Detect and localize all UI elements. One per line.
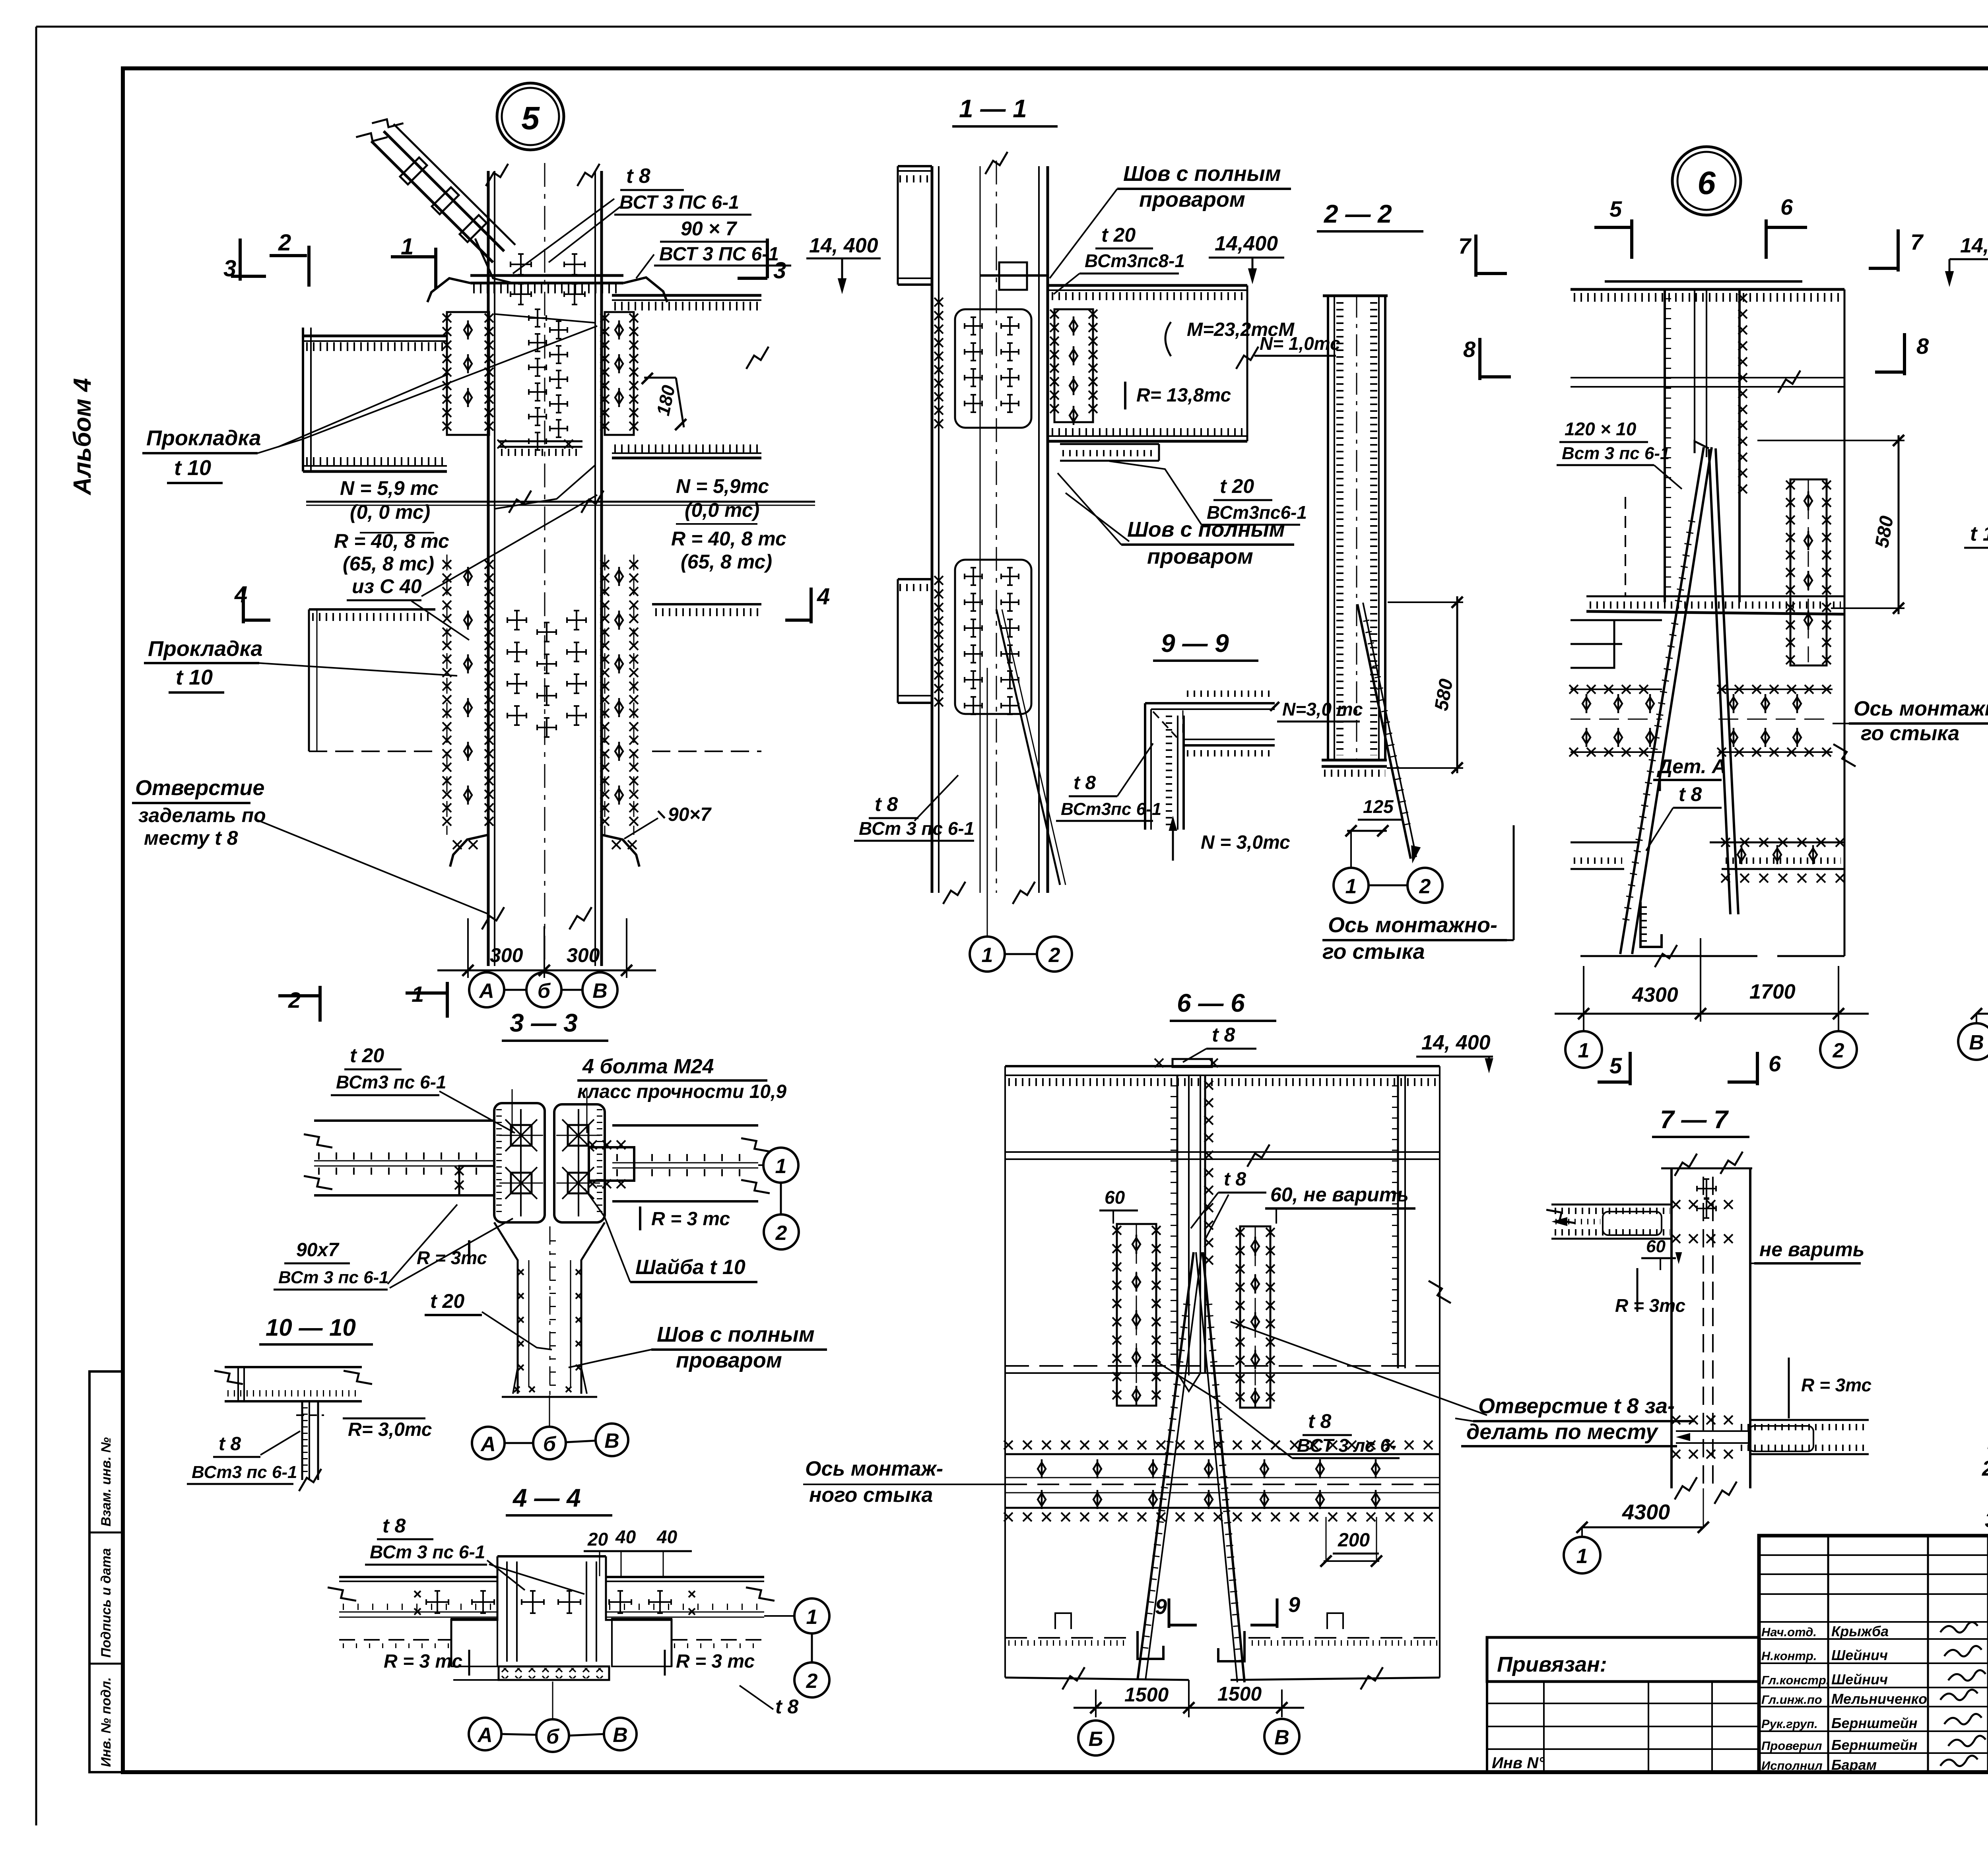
node6 middle beam xyxy=(1586,595,1844,597)
node5 lower right beam xyxy=(652,603,761,605)
node5 column xyxy=(487,171,490,966)
svg-text:4: 4 xyxy=(234,582,247,607)
svg-text:R = 3тс: R = 3тс xyxy=(1801,1375,1872,1395)
5-5 dims 3750 750 1500 xyxy=(1976,1013,1988,1015)
svg-text:В: В xyxy=(1969,1031,1984,1054)
7-7 right beam xyxy=(1750,1419,1869,1421)
svg-text:300: 300 xyxy=(567,944,600,966)
left margin stamp boxes xyxy=(89,1371,123,1772)
svg-text:R = 40, 8 тс: R = 40, 8 тс xyxy=(671,528,786,550)
1-1 axis circles xyxy=(970,937,1005,972)
6-6 lower strip xyxy=(1005,1453,1440,1455)
1-1 beam x plate xyxy=(1054,309,1093,422)
svg-text:(0, 0 тс): (0, 0 тс) xyxy=(350,501,430,523)
3-3 bolts xyxy=(511,1125,532,1146)
outer sheet border xyxy=(35,27,37,1825)
svg-text:Нач.отд.: Нач.отд. xyxy=(1761,1625,1817,1639)
4-4 circles 1 2 xyxy=(794,1598,829,1633)
svg-text:R = 3 тс: R = 3 тс xyxy=(651,1208,730,1230)
svg-text:2: 2 xyxy=(1048,944,1060,967)
svg-text:125: 125 xyxy=(1363,796,1394,817)
svg-text:Крыжба: Крыжба xyxy=(1831,1623,1889,1639)
svg-text:А: А xyxy=(480,1433,496,1456)
svg-text:1500: 1500 xyxy=(1217,1683,1262,1705)
6-6 mid dashed beam lines xyxy=(1005,1365,1440,1367)
node6 dims 4300 1700 xyxy=(1583,966,1584,1022)
svg-text:Ось монтажно-: Ось монтажно- xyxy=(1328,913,1497,937)
svg-text:N=3,0 тс: N=3,0 тс xyxy=(1282,699,1363,720)
svg-text:N = 5,9тс: N = 5,9тс xyxy=(676,475,769,497)
dim 180 xyxy=(644,377,676,379)
svg-text:Проверил: Проверил xyxy=(1761,1739,1822,1753)
svg-text:1: 1 xyxy=(775,1155,787,1178)
svg-text:В: В xyxy=(613,1724,628,1747)
6-6 right stiffener xyxy=(1397,1075,1399,1368)
9-9 corner detail xyxy=(1145,702,1275,704)
svg-text:ВСт3пс8-1: ВСт3пс8-1 xyxy=(1085,250,1185,271)
svg-text:Исполнил: Исполнил xyxy=(1761,1759,1823,1773)
svg-text:го стыка: го стыка xyxy=(1861,722,1959,745)
6-6 bottom edge xyxy=(1005,1678,1189,1680)
svg-text:5: 5 xyxy=(521,100,540,136)
node 6 bubble xyxy=(1672,147,1741,215)
svg-text:4 — 4: 4 — 4 xyxy=(512,1484,581,1512)
svg-text:3.Работать с листом 18,: 3.Работать с листом 18, xyxy=(1985,1508,1988,1532)
10-10 vertical stub xyxy=(301,1401,303,1480)
6-6 top beam xyxy=(1005,1065,1440,1067)
1-1 diagonal inside column xyxy=(996,609,1060,885)
svg-text:Шайба t 10: Шайба t 10 xyxy=(635,1256,745,1279)
svg-text:ВСт3пс 6-1: ВСт3пс 6-1 xyxy=(1061,799,1161,819)
svg-text:Отверстие t 8 за-: Отверстие t 8 за- xyxy=(1478,1394,1675,1418)
svg-text:2 — 2: 2 — 2 xyxy=(1324,200,1392,228)
svg-text:t 8: t 8 xyxy=(1224,1169,1246,1190)
svg-text:Прокладка: Прокладка xyxy=(148,637,263,661)
svg-text:t 10: t 10 xyxy=(174,456,211,480)
svg-text:90 × 7: 90 × 7 xyxy=(681,217,738,240)
3-3 column section (two channels) xyxy=(494,1103,545,1222)
svg-text:2: 2 xyxy=(288,987,301,1012)
svg-text:N = 5,9 тс: N = 5,9 тс xyxy=(340,477,439,499)
svg-text:Ось монтаж-: Ось монтаж- xyxy=(805,1457,943,1480)
node6 top beam xyxy=(1571,288,1844,291)
svg-text:t 10: t 10 xyxy=(1970,522,1988,545)
5-5 axis circles xyxy=(1958,1023,1988,1060)
svg-text:ВСт 3 пс 6-1: ВСт 3 пс 6-1 xyxy=(859,818,974,839)
node6 bottom lines xyxy=(1580,955,1757,957)
1-1 bottom left leader xyxy=(914,775,958,821)
7-7 R=3tc left xyxy=(1637,1268,1639,1312)
svg-text:1: 1 xyxy=(806,1606,818,1629)
node6 axis circles 1 2 xyxy=(1583,1022,1584,1030)
7-7 left beam xyxy=(1551,1204,1672,1206)
1-1 inner slotted plates xyxy=(955,309,1031,428)
1-1 seat plate below beam xyxy=(1060,443,1159,445)
svg-text:6 — 6: 6 — 6 xyxy=(1177,989,1245,1017)
svg-text:10 — 10: 10 — 10 xyxy=(266,1314,356,1341)
svg-text:Бернштейн: Бернштейн xyxy=(1831,1715,1918,1731)
svg-text:заделать по: заделать по xyxy=(138,804,266,826)
svg-text:б: б xyxy=(543,1433,557,1456)
svg-text:Гл.инж.по: Гл.инж.по xyxy=(1761,1693,1822,1707)
svg-text:2: 2 xyxy=(1419,875,1431,898)
svg-text:1700: 1700 xyxy=(1749,980,1796,1003)
svg-text:14, 400: 14, 400 xyxy=(1960,234,1988,257)
svg-text:месту t 8: месту t 8 xyxy=(144,827,238,849)
6-6 montage plates xyxy=(1117,1224,1156,1406)
svg-text:60, не варить: 60, не варить xyxy=(1270,1183,1409,1206)
node5 bottom bent angles xyxy=(450,835,488,867)
svg-text:1 — 1: 1 — 1 xyxy=(959,94,1027,123)
1-1 column xyxy=(931,166,934,893)
svg-text:ВСт 3 пс 6-1: ВСт 3 пс 6-1 xyxy=(278,1268,389,1287)
svg-text:2: 2 xyxy=(278,230,291,256)
svg-text:2: 2 xyxy=(1833,1039,1844,1062)
svg-text:Привязан:: Привязан: xyxy=(1497,1653,1607,1676)
svg-text:R = 3тс: R = 3тс xyxy=(1615,1295,1685,1316)
7-7 axis circle 1 xyxy=(1564,1537,1600,1573)
svg-text:t 8: t 8 xyxy=(1212,1024,1235,1046)
svg-text:60: 60 xyxy=(1646,1237,1666,1256)
node6 dim 580 xyxy=(1757,440,1905,441)
10-10 beam xyxy=(225,1366,362,1368)
svg-text:Б: Б xyxy=(1089,1728,1103,1751)
node6 horizontal break lines xyxy=(1571,377,1844,378)
svg-text:Вст 3 пс 6-1: Вст 3 пс 6-1 xyxy=(1562,444,1670,463)
4-4 central H section xyxy=(497,1555,606,1558)
1-1 column bottom breaks xyxy=(943,882,965,904)
svg-text:3 — 3: 3 — 3 xyxy=(510,1009,578,1037)
svg-text:Бернштейн: Бернштейн xyxy=(1831,1737,1918,1753)
node5 joint plate left xyxy=(447,312,489,435)
node5 axis circles xyxy=(469,972,504,1007)
svg-text:го стыка: го стыка xyxy=(1322,940,1425,964)
svg-text:8: 8 xyxy=(1916,334,1929,359)
node6 left montage strip xyxy=(1571,689,1662,690)
svg-text:14, 400: 14, 400 xyxy=(809,234,878,257)
2-2 axis circles xyxy=(1334,868,1369,903)
4-4 bolts xyxy=(426,1591,448,1613)
4-4 bottom plate with hatch xyxy=(499,1666,609,1680)
svg-text:9: 9 xyxy=(1155,1595,1167,1619)
svg-text:8: 8 xyxy=(1463,337,1476,362)
svg-text:1: 1 xyxy=(1345,875,1357,898)
6-6 bottom stubs row xyxy=(1005,1637,1131,1639)
node5 lower flange plates with x xyxy=(443,560,451,826)
svg-text:R = 3 тс: R = 3 тс xyxy=(384,1651,462,1672)
svg-text:t 8: t 8 xyxy=(219,1433,241,1455)
svg-text:Рук.груп.: Рук.груп. xyxy=(1761,1717,1818,1731)
node5 web bolts xyxy=(529,309,546,327)
3-3 axis circles 1 2 right xyxy=(763,1148,798,1183)
svg-text:проваром: проваром xyxy=(1147,545,1253,568)
svg-text:5: 5 xyxy=(1609,196,1622,221)
svg-text:90х7: 90х7 xyxy=(296,1239,340,1261)
node 5 bubble xyxy=(497,83,564,150)
svg-text:Взам. инв. №: Взам. инв. № xyxy=(99,1437,114,1527)
bent angle 90x7 right xyxy=(623,277,667,302)
svg-text:t 8: t 8 xyxy=(382,1515,406,1537)
svg-text:t 8: t 8 xyxy=(626,165,650,188)
svg-text:R= 3,0тс: R= 3,0тс xyxy=(348,1419,432,1440)
svg-text:4300: 4300 xyxy=(1632,983,1678,1007)
node5 right beam xyxy=(612,294,761,297)
node5 cap plate t8 xyxy=(470,274,623,277)
svg-text:ВСт3 пс 6-1: ВСт3 пс 6-1 xyxy=(192,1462,297,1482)
node5 second level beams xyxy=(306,501,815,503)
1-1 left stub beams xyxy=(898,165,932,167)
svg-text:Барам: Барам xyxy=(1831,1757,1877,1773)
4-4 bottom axes xyxy=(469,1718,501,1750)
svg-text:14, 400: 14, 400 xyxy=(1421,1031,1491,1054)
svg-text:t 8: t 8 xyxy=(1308,1410,1332,1432)
svg-text:1: 1 xyxy=(982,944,993,967)
svg-text:проваром: проваром xyxy=(1139,188,1245,211)
node6 lower beams xyxy=(1571,842,1638,844)
svg-text:200: 200 xyxy=(1338,1530,1370,1551)
3-3 tapered column below xyxy=(494,1222,518,1394)
svg-text:Шейнич: Шейнич xyxy=(1831,1671,1888,1687)
node5 lower left beam xyxy=(309,608,435,611)
svg-text:Шейнич: Шейнич xyxy=(1831,1647,1888,1663)
node5 left beam xyxy=(303,335,447,337)
svg-text:t 10: t 10 xyxy=(176,665,213,689)
svg-text:14,400: 14,400 xyxy=(1215,232,1278,255)
svg-text:40: 40 xyxy=(656,1527,678,1547)
6-6 axis circles xyxy=(1078,1720,1113,1755)
node5 gusset outline xyxy=(495,314,595,323)
svg-text:R= 13,8тс: R= 13,8тс xyxy=(1136,385,1231,406)
3-3 axis circles A B V xyxy=(472,1427,505,1459)
svg-text:Мельниченко: Мельниченко xyxy=(1831,1691,1927,1707)
4-4 left beam xyxy=(339,1576,497,1578)
svg-text:ВСТ 3 лс 6-: ВСТ 3 лс 6- xyxy=(1297,1435,1396,1456)
svg-text:ного стыка: ного стыка xyxy=(809,1484,933,1507)
svg-text:Шов с полным: Шов с полным xyxy=(657,1323,815,1346)
svg-text:Прокладка: Прокладка xyxy=(146,426,261,450)
2-2 dim 580 xyxy=(1388,601,1463,603)
svg-text:t 20: t 20 xyxy=(350,1044,384,1067)
3-3 bolt leader lines xyxy=(512,1089,513,1133)
svg-text:В: В xyxy=(604,1430,619,1453)
node5 lower web bolts xyxy=(507,611,526,630)
svg-text:делать по месту: делать по месту xyxy=(1466,1420,1659,1444)
svg-text:5: 5 xyxy=(1609,1053,1622,1078)
svg-text:t 8: t 8 xyxy=(775,1695,799,1718)
svg-text:1: 1 xyxy=(1576,1545,1588,1568)
svg-text:Отверстие: Отверстие xyxy=(135,776,264,800)
9-9 N label bottom xyxy=(1172,819,1174,861)
svg-text:Гл.констр.: Гл.констр. xyxy=(1761,1673,1829,1687)
svg-text:из С 40: из С 40 xyxy=(352,575,422,597)
3-3 column base flare xyxy=(513,1367,518,1394)
1-1 force labels xyxy=(1165,322,1171,356)
node5 seat plate xyxy=(498,440,582,442)
svg-text:ВСт3 пс 6-1: ВСт3 пс 6-1 xyxy=(336,1072,447,1092)
1-1 x marks along column flanges xyxy=(934,298,943,428)
svg-text:R = 3тс: R = 3тс xyxy=(417,1247,487,1268)
svg-text:Инв N°: Инв N° xyxy=(1492,1754,1545,1772)
svg-text:проваром: проваром xyxy=(676,1348,782,1372)
node6 diagonals xyxy=(1620,447,1704,954)
svg-text:1: 1 xyxy=(1578,1039,1590,1062)
svg-text:60: 60 xyxy=(1105,1187,1125,1208)
svg-text:Шов с полным: Шов с полным xyxy=(1123,162,1281,186)
node5 bottom dim 300 300 xyxy=(467,918,469,978)
7-7 R=3tc right xyxy=(1788,1358,1790,1418)
node6 montage joint left plates xyxy=(1718,689,1833,690)
svg-text:Ось монтажно-: Ось монтажно- xyxy=(1854,697,1988,720)
2-2 column xyxy=(1323,295,1388,297)
bent angle 90x7 left xyxy=(427,278,470,302)
privyazan box xyxy=(1487,1637,1759,1682)
6-6 dims 1500 1500 xyxy=(1095,1689,1097,1717)
svg-text:Дет. А: Дет. А xyxy=(1656,755,1726,778)
svg-text:t 20: t 20 xyxy=(430,1290,464,1312)
svg-text:90×7: 90×7 xyxy=(668,804,712,825)
3-3 right beam plan xyxy=(612,1124,758,1127)
svg-text:ВСТ 3 ПС 6-1: ВСТ 3 ПС 6-1 xyxy=(619,192,739,213)
7-7 bottom breaks xyxy=(1675,1477,1697,1499)
3-3 washer xyxy=(589,1147,634,1181)
svg-text:(65, 8 тс): (65, 8 тс) xyxy=(343,553,434,575)
svg-text:20: 20 xyxy=(587,1529,608,1550)
1-1 right beam xyxy=(1048,284,1247,287)
node5 joint plate right xyxy=(605,312,634,435)
svg-text:класс прочности 10,9: класс прочности 10,9 xyxy=(577,1081,786,1102)
6-6 column above xyxy=(1176,1075,1178,1373)
svg-text:6: 6 xyxy=(1697,165,1716,201)
svg-text:1500: 1500 xyxy=(1124,1684,1169,1706)
svg-text:R = 3 тс: R = 3 тс xyxy=(676,1651,755,1672)
svg-text:t 20: t 20 xyxy=(1220,475,1254,497)
svg-text:б: б xyxy=(546,1725,560,1748)
svg-text:7: 7 xyxy=(1458,233,1472,258)
svg-text:t 8: t 8 xyxy=(1679,783,1702,805)
svg-text:(65, 8 тс): (65, 8 тс) xyxy=(681,551,772,573)
6-6 otverstie leader xyxy=(1231,1322,1487,1415)
svg-text:А: А xyxy=(478,980,494,1003)
3-3 small plate left xyxy=(459,1166,494,1195)
4-4 fish plates xyxy=(451,1619,497,1666)
6-6 bottom channel stubs xyxy=(1138,1631,1163,1659)
svg-text:4: 4 xyxy=(817,584,830,609)
svg-text:4300: 4300 xyxy=(1622,1500,1670,1524)
svg-text:9 — 9: 9 — 9 xyxy=(1161,629,1229,658)
6-6 break lines xyxy=(1005,1151,1440,1153)
svg-text:t 8: t 8 xyxy=(1074,772,1096,793)
node6 520 plate right xyxy=(1790,479,1827,665)
svg-text:2: 2 xyxy=(806,1670,818,1693)
svg-text:300: 300 xyxy=(490,944,523,966)
node6 hidden edge dashes xyxy=(1625,497,1626,596)
svg-text:Альбом 4: Альбом 4 xyxy=(69,378,96,496)
4-4 right beam xyxy=(606,1576,764,1578)
svg-text:2.Ведомость элементов и общ: 2.Ведомость элементов и общие xyxy=(1982,1457,1988,1480)
svg-text:В: В xyxy=(1274,1726,1289,1749)
svg-text:40: 40 xyxy=(615,1527,636,1547)
svg-text:ВСт 3 пс 6-1: ВСт 3 пс 6-1 xyxy=(370,1542,485,1562)
svg-text:В: В xyxy=(592,980,608,1003)
svg-text:9: 9 xyxy=(1288,1593,1300,1617)
svg-text:Шов с полным: Шов с полным xyxy=(1127,518,1285,541)
2-2 diagonal brace xyxy=(1357,604,1411,859)
3-3 left beam plan xyxy=(314,1119,494,1122)
svg-text:6: 6 xyxy=(1780,194,1793,219)
svg-text:А: А xyxy=(477,1724,493,1747)
svg-text:(0,0 тс): (0,0 тс) xyxy=(685,499,759,521)
2-2 bottom plate xyxy=(1322,759,1387,762)
svg-text:6: 6 xyxy=(1769,1051,1781,1076)
svg-text:t 20: t 20 xyxy=(1101,224,1136,246)
svg-text:б: б xyxy=(538,980,551,1003)
node5 diagonal brace xyxy=(371,141,493,262)
6-6 V diagonals xyxy=(1138,1252,1194,1680)
svg-text:N = 3,0тс: N = 3,0тс xyxy=(1201,832,1290,853)
svg-text:7: 7 xyxy=(1910,229,1924,254)
svg-text:Подпись и дата: Подпись и дата xyxy=(99,1548,114,1658)
3-3 R labels xyxy=(639,1206,641,1230)
svg-text:7 — 7: 7 — 7 xyxy=(1660,1105,1729,1134)
node6 channel stub xyxy=(1640,902,1662,947)
svg-text:120 × 10: 120 × 10 xyxy=(1565,419,1637,439)
svg-text:2: 2 xyxy=(775,1222,787,1245)
svg-text:t 8: t 8 xyxy=(875,793,898,815)
svg-text:Инв. № подл.: Инв. № подл. xyxy=(99,1677,114,1767)
svg-text:ВСТ 3 ПС 6-1: ВСТ 3 ПС 6-1 xyxy=(659,244,779,265)
svg-text:Н.контр.: Н.контр. xyxy=(1761,1649,1817,1663)
svg-text:не варить: не варить xyxy=(1759,1238,1864,1261)
7-7 column xyxy=(1661,1168,1752,1170)
1-1 small top plate xyxy=(999,262,1027,290)
node6 column xyxy=(1664,289,1666,602)
title block xyxy=(1759,1536,1988,1772)
svg-text:4 болта М24: 4 болта М24 xyxy=(582,1055,714,1078)
